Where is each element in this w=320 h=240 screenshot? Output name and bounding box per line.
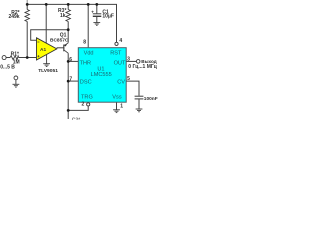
svg-text:7: 7	[69, 76, 72, 82]
svg-text:THR: THR	[80, 60, 92, 66]
svg-text:R1*: R1*	[11, 51, 19, 57]
svg-text:100nF: 100nF	[144, 96, 158, 102]
svg-text:BC857C: BC857C	[50, 37, 69, 43]
svg-text:TLV9051: TLV9051	[38, 68, 58, 74]
svg-text:5: 5	[127, 76, 130, 82]
svg-text:8: 8	[83, 39, 86, 45]
svg-text:10µF: 10µF	[102, 14, 114, 20]
svg-text:+: +	[91, 9, 94, 14]
svg-text:2: 2	[82, 102, 85, 108]
svg-text:LMC555: LMC555	[91, 72, 112, 78]
svg-text:CV: CV	[117, 80, 125, 86]
svg-text:0...5 В: 0...5 В	[0, 64, 15, 70]
svg-text:OUT: OUT	[114, 60, 126, 66]
svg-text:249k: 249k	[8, 14, 19, 20]
svg-text:C2*: C2*	[72, 118, 80, 121]
svg-text:TRG: TRG	[81, 95, 93, 101]
svg-text:Vdd: Vdd	[84, 51, 94, 57]
svg-text:4: 4	[119, 38, 122, 44]
svg-text:1k: 1k	[60, 13, 66, 19]
svg-text:DSC: DSC	[80, 80, 92, 86]
svg-text:Vss: Vss	[112, 95, 122, 101]
svg-text:A1: A1	[40, 47, 46, 53]
svg-text:3: 3	[127, 56, 130, 62]
svg-text:RST: RST	[110, 50, 122, 56]
svg-text:1: 1	[120, 103, 123, 109]
svg-text:0 Гц...1 МГц: 0 Гц...1 МГц	[128, 64, 157, 70]
svg-text:6: 6	[69, 57, 72, 63]
